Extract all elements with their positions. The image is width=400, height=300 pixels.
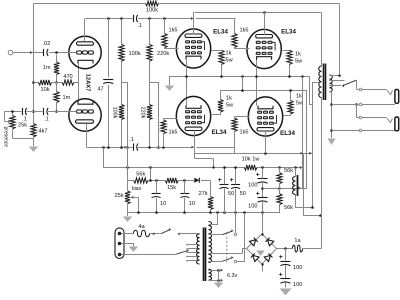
resistor R3 10k (39, 80, 52, 93)
svg-text:100k: 100k (146, 8, 158, 14)
node N (264, 152, 267, 155)
node D (32, 81, 35, 84)
node AI (216, 211, 219, 214)
node AY (0, 0, 2, 2)
node AT (311, 206, 314, 209)
capacitor C9 50 (218, 166, 234, 213)
wire cathode bus top (169, 76, 312, 104)
svg-text:1k: 1k (226, 51, 232, 57)
wire stair x194 (194, 147, 196, 158)
svg-text:1a: 1a (294, 238, 301, 244)
capacitor C10 50 (230, 166, 246, 213)
node AK (234, 211, 237, 214)
capacitor .02 (43, 41, 51, 56)
resistor R20 15k (165, 178, 178, 191)
wire 6.3v bottom (208, 279, 223, 282)
wire riser B+ (321, 98, 323, 249)
tube V1a circle (69, 36, 101, 68)
svg-text:27k: 27k (198, 191, 207, 197)
resistor R13 1k5 (232, 19, 250, 49)
resistor R22 10k 1w (242, 157, 261, 171)
svg-text:47: 47 (98, 87, 104, 93)
node AC (155, 179, 158, 182)
node Y (330, 129, 333, 132)
node AE (137, 211, 140, 214)
switch contact c (359, 116, 362, 119)
resistor R6 100k (119, 44, 141, 61)
ground G1 (29, 147, 38, 152)
node F (107, 17, 110, 20)
svg-text:100: 100 (248, 183, 257, 189)
tube V1a grid (77, 51, 94, 54)
svg-text:100: 100 (293, 265, 302, 271)
wire 47 branch (108, 19, 110, 148)
wire bridge out (277, 248, 293, 250)
svg-text:56k: 56k (284, 168, 293, 174)
node W (338, 74, 341, 77)
resistor R14 1k 5w (283, 50, 304, 76)
wire mains E (122, 244, 134, 247)
fuse F1 4a (134, 224, 150, 237)
node AH (209, 211, 212, 214)
wire jack sleeve row2 (332, 130, 396, 132)
svg-text:100: 100 (293, 282, 302, 288)
tube V3 cathode lead (256, 60, 258, 106)
svg-text:EL34: EL34 (212, 129, 227, 136)
transformer T2 core (204, 228, 206, 282)
wire speaker bus (331, 92, 333, 138)
wire drop x306 (306, 90, 308, 188)
wire jack tip row2 (357, 118, 393, 123)
wire cathode link (78, 64, 80, 102)
wire NFB drop (339, 4, 341, 76)
svg-text:1m: 1m (43, 65, 51, 71)
label 6.3v (227, 273, 237, 279)
wire drop x301 (302, 76, 304, 188)
svg-text:EL34: EL34 (281, 29, 296, 36)
wire T2 HV tap2 (208, 249, 246, 254)
wire grid2 lead (59, 111, 77, 113)
diode D2 (250, 237, 258, 245)
capacitor C4 .1 (134, 15, 142, 29)
ground G4 (123, 213, 132, 222)
diode D4 (251, 253, 259, 261)
wire T2 HV tap3 (208, 261, 222, 263)
jack J3 body (395, 117, 399, 131)
wire rail B1 (195, 152, 313, 155)
node G (120, 17, 123, 20)
wire jack tip row1 (357, 90, 393, 95)
node AO (261, 166, 264, 169)
node AF (155, 211, 158, 214)
svg-text:5w: 5w (295, 59, 303, 65)
wire bridge bottom stub (262, 264, 264, 272)
connector mains inlet (115, 228, 124, 259)
switch contact b (359, 103, 362, 106)
wire T2 primary tap2 (186, 248, 197, 250)
svg-text:EL34: EL34 (213, 29, 228, 36)
svg-text:25k: 25k (114, 193, 123, 199)
tube V2 plate lead (193, 12, 195, 35)
node S (288, 75, 304, 78)
wire OT sec tap3 (329, 85, 341, 87)
ground G6 (214, 283, 223, 288)
capacitor C3 .1 (44, 108, 49, 123)
wire screen link (280, 187, 308, 190)
wire fuse to switch (150, 232, 160, 235)
node AV (261, 263, 263, 265)
ground G5 (129, 247, 138, 252)
resistor R4 470 (62, 74, 74, 85)
node AJ (223, 211, 226, 214)
node X (330, 103, 333, 106)
switch gang link (226, 233, 228, 263)
tube V5 plate lead (265, 131, 267, 153)
wire T2 primary tap4 (186, 256, 197, 258)
svg-text:EL34: EL34 (280, 130, 295, 137)
node AD (183, 179, 186, 182)
node H (148, 17, 151, 20)
node AR (261, 187, 264, 190)
resistor R17 1k5 (232, 117, 250, 154)
resistor R23 56k (277, 168, 293, 194)
tube V1b circle (69, 99, 101, 131)
svg-text:50: 50 (240, 191, 246, 197)
node E (32, 110, 35, 113)
resistor R11 1k5 (162, 19, 179, 49)
node L (148, 146, 151, 149)
resistor R7 100k (111, 105, 124, 120)
node I (163, 17, 166, 20)
svg-text:1k: 1k (226, 96, 232, 102)
label EL34 V3 (281, 29, 296, 36)
transformer T2 secondary 6.3v (209, 269, 212, 280)
tube V2 EL34 (176, 29, 210, 68)
wire cathode bus bottom (221, 90, 307, 92)
ground G2 (165, 86, 174, 91)
wire mains L (122, 233, 134, 235)
wire presence row (5, 111, 59, 113)
label EL34 V2 (213, 29, 228, 36)
svg-text:1k5: 1k5 (240, 130, 249, 136)
diode D5 (264, 253, 272, 261)
svg-text:220k: 220k (140, 107, 146, 119)
transformer T2 primary (197, 234, 200, 265)
wire grid1 lead (59, 52, 77, 54)
node V (289, 89, 292, 92)
resistor R10 100k (146, 1, 159, 13)
tube V3 EL34 (247, 29, 281, 68)
capacitor C7 10 (152, 180, 167, 213)
capacitor C6 .1 (129, 137, 138, 151)
svg-text:bias: bias (132, 186, 142, 192)
transformer T1 primary (319, 66, 322, 98)
resistor R2 1m (54, 83, 71, 112)
wire bias row (128, 180, 210, 182)
wire T2 HV tap1 (208, 234, 222, 236)
wire riser x302 (301, 152, 304, 215)
wire plate rail top (195, 12, 322, 14)
wire plate2 row (87, 122, 235, 149)
diode D3 (265, 237, 273, 245)
resistor R15 1k5 (161, 119, 178, 148)
svg-text:.1: .1 (129, 137, 134, 143)
wire T2 primary tap5 (186, 260, 197, 262)
switch SW1 impedance (342, 80, 357, 89)
potentiometer bias 25k (114, 180, 141, 213)
resistor R24 56k (277, 194, 293, 213)
switch SW3 selector (177, 249, 190, 254)
node AW (261, 233, 263, 235)
wire link y214 (303, 215, 321, 217)
node J (107, 146, 110, 149)
node AG (183, 211, 186, 214)
tube V4 EL34 (176, 96, 210, 135)
svg-text:100k: 100k (111, 107, 117, 119)
switch contact d (359, 129, 362, 132)
potentiometer presence 25k (2, 110, 33, 147)
transformer T1 core (324, 64, 326, 101)
node AP (278, 166, 281, 169)
resistor R21 27k (198, 180, 213, 213)
resistor R18 1k 5w (284, 90, 305, 116)
wire OT center tap (313, 83, 319, 208)
wire T2 primary tap1 (186, 244, 197, 246)
svg-text:12AX7: 12AX7 (84, 74, 90, 92)
wire mains N (122, 254, 177, 256)
ground G3 (327, 139, 335, 146)
resistor R1 1m (43, 55, 59, 83)
tube V2 cathode lead (186, 59, 188, 105)
wire OT primary top lead (321, 13, 323, 67)
node AL (243, 211, 246, 214)
switch contact a (359, 88, 362, 91)
switch SW5 standby b (223, 213, 247, 263)
svg-text:100: 100 (248, 204, 257, 210)
node M (162, 146, 165, 149)
node R (241, 75, 258, 90)
tube V1b plate (76, 120, 94, 123)
node Z (355, 103, 358, 106)
ground G7 (256, 251, 265, 256)
tube V4 plate lead (194, 131, 196, 148)
transformer T2 secondary HV (209, 222, 212, 263)
node Q (220, 75, 223, 78)
tube V1a plate (77, 19, 94, 46)
svg-text:4a: 4a (138, 224, 145, 230)
capacitor C5 47 (98, 80, 114, 93)
svg-text:1k5: 1k5 (169, 130, 178, 136)
ground G8 (280, 289, 292, 296)
svg-text:15k: 15k (167, 185, 176, 191)
switch SW2 mains (161, 228, 199, 235)
svg-text:.1: .1 (44, 117, 49, 123)
svg-text:56k: 56k (284, 205, 293, 211)
svg-text:470: 470 (63, 74, 72, 80)
svg-text:5w: 5w (226, 58, 234, 64)
node AU (319, 214, 322, 217)
svg-text:.02: .02 (43, 41, 51, 47)
svg-text:1m: 1m (63, 95, 71, 101)
transformer T1 secondary (330, 75, 333, 92)
svg-text:6.3v: 6.3v (227, 273, 237, 279)
label 12AX7 (84, 74, 90, 92)
switch SW4 standby a (223, 213, 237, 236)
wire res cap branch (285, 249, 287, 261)
wire 6.3v gnd (218, 270, 220, 283)
diode D1 (194, 178, 199, 183)
tube V1b cathode (78, 101, 93, 104)
tube V5 EL34 (248, 97, 282, 136)
svg-text:220k: 220k (157, 51, 169, 57)
svg-text:10k: 10k (40, 87, 49, 93)
tube V1a cathode (78, 60, 93, 63)
wire zero rail (128, 212, 280, 214)
node O (263, 11, 266, 14)
svg-text:100k: 100k (129, 51, 141, 57)
resistor R12 1k 5w (212, 50, 234, 76)
svg-text:1k5: 1k5 (240, 28, 249, 34)
label EL34 V5 (280, 130, 295, 137)
wire OT sec tap4 (329, 91, 331, 93)
wire 100k branch (122, 19, 129, 149)
wire cathode row (34, 82, 79, 84)
fuse F2 1a (293, 238, 303, 252)
node P (185, 75, 188, 78)
node K (120, 146, 123, 149)
node AX (284, 247, 287, 250)
wire OT sec tap1 (329, 75, 339, 77)
wire input line (13, 51, 44, 54)
label EL34 V4 (212, 129, 227, 136)
wire T2 primary tap3 (186, 251, 197, 253)
wire cap mid link (263, 188, 280, 190)
svg-text:.1: .1 (137, 23, 142, 29)
resistor R5 4k7 (31, 124, 48, 147)
svg-text:50: 50 (228, 191, 234, 197)
capacitor C2 .1 (22, 108, 27, 123)
capacitor C14 100 (279, 273, 302, 288)
wire 220k branch (150, 19, 160, 149)
rectifier bridge outline (247, 234, 277, 264)
wire cap to grid (49, 52, 77, 54)
svg-text:56k: 56k (136, 172, 145, 178)
wire jack sleeve row1 (332, 104, 396, 106)
jack J2 body (395, 90, 399, 104)
resistor R8 220k (147, 44, 169, 61)
capacitor C13 100 (279, 255, 302, 278)
svg-text:10k 1w: 10k 1w (242, 157, 261, 163)
svg-text:10: 10 (189, 201, 195, 207)
wire fuse to riser (303, 248, 322, 250)
wire rail B2 (195, 159, 245, 168)
capacitor C12 100 (248, 192, 267, 213)
node AB (149, 179, 152, 182)
svg-text:1k5: 1k5 (169, 28, 178, 34)
wire 6.3v top (208, 269, 223, 272)
resistor R19 56k (134, 172, 149, 184)
wire plate1 row (85, 17, 236, 20)
svg-text:25k: 25k (18, 123, 27, 129)
svg-text:presence: presence (2, 127, 8, 148)
wire filter rail (257, 166, 302, 169)
node AM (261, 211, 264, 214)
node T (241, 89, 244, 92)
node B (55, 81, 58, 84)
inductor L1 choke (293, 168, 298, 197)
tube V3 plate lead (264, 12, 266, 35)
node AS (278, 187, 281, 190)
wire jack drop (357, 105, 361, 118)
capacitor C8 10 (180, 180, 195, 213)
capacitor C11 100 (248, 168, 267, 198)
wire bias feed (102, 146, 215, 181)
wire choke bottom (296, 195, 313, 208)
wire NFB rail (34, 3, 340, 5)
node AQ (294, 166, 297, 169)
wire OT primary bottom lead (321, 98, 323, 100)
svg-text:10: 10 (160, 201, 166, 207)
wire T2 bias tap (209, 213, 218, 225)
node C (55, 110, 58, 113)
svg-text:1k: 1k (295, 52, 301, 58)
input terminal J1 (8, 50, 13, 55)
svg-text:1k: 1k (296, 94, 302, 100)
svg-text:4k7: 4k7 (39, 129, 48, 135)
wire NFB bus (33, 4, 35, 124)
resistor R16 1k 5w (211, 90, 235, 115)
wire bridge top riser (262, 213, 264, 234)
svg-text:5w: 5w (226, 103, 234, 109)
node A (55, 51, 58, 54)
resistor R9 220k (140, 105, 152, 120)
wire OT sec tap2 (329, 80, 344, 82)
tube V1b grid (77, 110, 94, 113)
